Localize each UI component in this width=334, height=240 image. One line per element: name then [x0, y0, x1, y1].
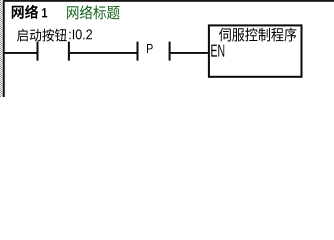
left power rail: [3, 2, 5, 97]
box title text: 伺服控制程序: [219, 28, 297, 42]
network header label: 网络 1: [12, 5, 47, 19]
contact (normally open) 启动按钮:I0.2: [37, 42, 70, 61]
wire: edge contact to subroutine box EN input: [171, 52, 208, 54]
wire: power rail to contact 1: [5, 52, 37, 54]
letter P of edge contact: [147, 44, 153, 53]
pin EN: [211, 45, 224, 57]
operand label of contact 1: 启动按钮:I0.2: [17, 29, 92, 42]
network title text: 网络标题: [67, 5, 120, 19]
subroutine call box 伺服控制程序: [209, 25, 302, 76]
positive edge transition contact: [137, 42, 171, 61]
wire: contact 1 to edge contact: [70, 52, 137, 54]
